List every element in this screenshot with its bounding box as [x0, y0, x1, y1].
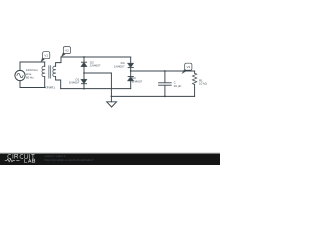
diode D3 [128, 71, 134, 89]
wire source bottom lead [20, 81, 45, 88]
label D3 value [132, 76, 143, 83]
junction node capacitor bottom [164, 96, 166, 98]
voltmeter flag V2 [61, 47, 70, 57]
junction node capacitor top [164, 70, 166, 72]
label RL value [199, 78, 208, 85]
svg-text:1N4007: 1N4007 [114, 64, 125, 68]
svg-text:V2: V2 [65, 48, 69, 52]
junction node AC2/D1 [83, 88, 85, 90]
svg-text:XFMR1: XFMR1 [45, 85, 55, 89]
wire OUT- left rail [84, 72, 111, 74]
wire AC2 rail [61, 88, 131, 90]
wire OUT- down leg [110, 73, 112, 102]
wire secondary bottom lead [56, 77, 61, 89]
capacitor C [159, 71, 172, 96]
label D2 value [90, 60, 101, 67]
diode D2 [81, 57, 87, 73]
svg-text:V1: V1 [44, 53, 48, 57]
svg-text:V3: V3 [186, 65, 190, 69]
watermark bar [0, 152, 220, 165]
transformer XFMR1 [42, 62, 56, 88]
wire OUT+ rail [131, 70, 195, 72]
wire OUT- bottom rail [111, 95, 194, 97]
ground [107, 102, 117, 107]
svg-text:10 µF: 10 µF [174, 84, 182, 88]
diode D4 [128, 57, 134, 71]
svg-text:60 Hz: 60 Hz [26, 75, 34, 79]
wire AC1 top rail [61, 56, 131, 58]
resistor RL [192, 71, 196, 96]
svg-text:http://circuitlab.com/c/bx3mdk: http://circuitlab.com/c/bx3mdk3q1117 [45, 158, 94, 162]
label C value [174, 81, 182, 88]
ac voltage source (120Vrms sine 60 Hz) [15, 70, 25, 80]
watermark CircuitLab logo [5, 154, 35, 162]
svg-text:1N4007: 1N4007 [69, 81, 80, 85]
voltmeter flag V1 [41, 52, 50, 62]
junction node OUT+ D3/D4 [130, 70, 132, 72]
svg-text:1N4007: 1N4007 [90, 64, 101, 68]
label source value [26, 68, 38, 79]
junction node ground tap [111, 96, 113, 98]
label D4 value [114, 61, 125, 68]
junction node OUT- D1/D2 [83, 72, 85, 74]
junction node AC1/D2 [83, 56, 85, 58]
svg-text:10 kΩ: 10 kΩ [199, 82, 208, 86]
svg-text:1N4007: 1N4007 [132, 79, 143, 83]
diode D1 [81, 73, 87, 89]
label D1 value [69, 77, 80, 84]
wire source top lead [20, 62, 45, 70]
wire secondary top lead [56, 57, 61, 66]
voltmeter flag V3 [182, 63, 192, 73]
